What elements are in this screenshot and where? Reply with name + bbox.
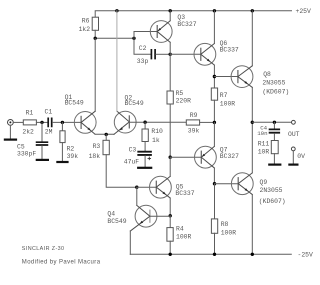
svg-text:1k2: 1k2 — [79, 26, 91, 33]
resistor R7 — [211, 88, 235, 107]
terminal: 0V — [291, 147, 305, 160]
junction: Q4 collector / Q5 base — [135, 186, 138, 189]
svg-text:R9: R9 — [190, 112, 198, 119]
svg-text:18k: 18k — [89, 153, 101, 160]
wire: Q1/Q2 emitter junction — [95, 133, 114, 135]
svg-text:2N3055: 2N3055 — [262, 80, 285, 87]
junction: R5/Q5 collector/Q7 base node — [169, 156, 172, 159]
svg-text:BC327: BC327 — [220, 153, 239, 160]
transistor Q2 (BC549 NPN, mirrored) — [114, 94, 144, 134]
wire: Q6 emitter down to R7 — [213, 65, 215, 88]
wire: Q2 base to feedback node — [129, 121, 186, 123]
capacitor C5 — [17, 122, 47, 158]
junction on -25V rail at R8 — [213, 253, 216, 256]
svg-text:BC337: BC337 — [220, 47, 239, 54]
resistor R1 — [22, 109, 36, 135]
ground: R11 — [269, 164, 280, 166]
node: +25V label — [296, 8, 312, 15]
junction on +25V rail at Q8 collector — [251, 9, 254, 12]
capacitor C3 (electrolytic) — [124, 142, 151, 167]
svg-text:100R: 100R — [176, 233, 192, 240]
wire: Q9 collector up to output node — [251, 122, 253, 173]
wire: Q4 emitter down to -25V rail — [129, 231, 131, 254]
transistor Q1 (BC549 NPN) — [65, 94, 96, 134]
svg-text:BC337: BC337 — [175, 190, 194, 197]
junction on +25V rail at Q2 collector line — [115, 9, 118, 12]
svg-text:100R: 100R — [221, 230, 237, 237]
junction on -25V rail at Q9 emitter — [251, 253, 254, 256]
resistor R11 — [258, 134, 278, 164]
resistor R6 — [79, 17, 99, 33]
transistor Q9 (2N3055 NPN) — [231, 173, 285, 205]
svg-text:220R: 220R — [176, 98, 192, 105]
svg-text:2k2: 2k2 — [22, 128, 34, 135]
svg-text:100R: 100R — [220, 100, 236, 107]
svg-text:R4: R4 — [176, 226, 184, 233]
svg-text:R7: R7 — [220, 92, 228, 99]
junction dot at node A / Q3 base branch — [132, 37, 135, 40]
wire: Q3 collector down to C2 node — [169, 42, 171, 54]
wire: R3 bottom to Q5 base node — [106, 155, 137, 188]
junction on +25V rail at Q6 collector — [213, 9, 216, 12]
wire: R6 bottom to node A — [94, 30, 96, 38]
svg-text:OUT: OUT — [288, 131, 300, 138]
svg-text:Q9: Q9 — [260, 179, 268, 186]
ground: C3 — [138, 167, 151, 169]
wire: Q4 base to Q5 emitter node — [150, 215, 170, 217]
svg-text:39k: 39k — [188, 128, 200, 135]
wire: node to Q5 base — [137, 186, 157, 188]
transistor Q3 (BC327 PNP) — [150, 14, 196, 43]
svg-text:10R: 10R — [258, 148, 270, 155]
subtitle: Modified by Pavel Macura — [22, 260, 101, 266]
svg-text:SINCLAIR Z-30: SINCLAIR Z-30 — [22, 246, 65, 252]
node: -25V label — [298, 251, 314, 258]
resistor R10 — [142, 122, 163, 144]
input connector J1 — [7, 120, 13, 126]
svg-text:R6: R6 — [82, 17, 90, 24]
resistor R4 — [167, 216, 192, 255]
svg-text:C3: C3 — [129, 147, 137, 154]
wire: Q9 emitter down to -25V rail — [251, 195, 253, 255]
wire: node to Q6 base — [170, 53, 201, 55]
svg-text:10n: 10n — [257, 130, 267, 137]
wire: Q2 collector line to +25V rail (light) — [116, 11, 118, 111]
wire: Q3 emitter up to +25V rail — [169, 11, 171, 21]
svg-text:R10: R10 — [151, 128, 163, 135]
svg-text:2M: 2M — [45, 128, 53, 135]
wire: C1 to Q1 base — [53, 121, 82, 123]
junction dot at R6 bottom — [94, 37, 97, 40]
junction: Q7 collector / R8 / Q9 base — [213, 182, 216, 185]
wire: -25V bottom rail — [130, 253, 291, 255]
terminal: OUT — [288, 120, 300, 138]
resistor R3 — [89, 134, 110, 160]
wire: node to Q7 base — [170, 156, 201, 158]
transistor Q4 (BC549 NPN, mirrored) — [107, 205, 157, 231]
resistor R8 — [211, 184, 236, 255]
junction: C4 tap — [273, 121, 276, 124]
svg-text:BC549: BC549 — [107, 218, 126, 225]
svg-text:BC549: BC549 — [65, 100, 84, 107]
svg-text:33p: 33p — [137, 58, 149, 65]
ground: input connector — [5, 139, 16, 141]
title: SINCLAIR Z-30 — [22, 246, 65, 252]
wire: 0V terminal to ground — [292, 151, 294, 164]
wire: Q7 collector down to Q9 base node — [213, 168, 215, 184]
svg-text:47uF: 47uF — [124, 159, 140, 166]
svg-text:330pF: 330pF — [17, 150, 36, 157]
wire: R9 right to Q7 emitter column — [200, 121, 215, 123]
junction on -25V rail at R4 — [169, 253, 172, 256]
wire: node A up to Q3 base — [134, 32, 157, 39]
svg-text:Q4: Q4 — [107, 211, 115, 218]
wire: node A down to C2 left — [134, 38, 151, 54]
wire: C2 right to Q3 emitter node — [156, 53, 170, 55]
wire: Q6 collector up to +25V rail — [213, 11, 215, 44]
svg-text:R5: R5 — [176, 90, 184, 97]
junction: C5 tap — [40, 121, 43, 124]
transistor Q6 (BC337 NPN) — [194, 40, 239, 65]
svg-text:39k: 39k — [67, 153, 79, 160]
svg-text:R3: R3 — [93, 143, 101, 150]
resistor R2 — [60, 122, 78, 161]
wire: Q8 collector up to +25V rail — [251, 11, 253, 66]
junction: Q8 base tap on Q6 emitter line — [213, 75, 216, 78]
junction on +25V rail at Q3 emitter — [169, 9, 172, 12]
capacitor C2 — [137, 45, 155, 65]
wire: R5 bottom to Q7 base node — [169, 104, 171, 157]
svg-text:(KD607): (KD607) — [259, 198, 286, 205]
capacitor C4 — [257, 122, 279, 137]
svg-text:R2: R2 — [67, 146, 75, 153]
wire: tap to Q8 base — [214, 76, 238, 78]
svg-text:C2: C2 — [139, 45, 147, 52]
svg-text:0V: 0V — [297, 153, 305, 160]
wire: R7 bottom to R9 node — [213, 100, 215, 122]
node A: R6/Q1 collector/Q3 base junction wire — [95, 37, 134, 39]
junction: emitters / R3 top — [105, 133, 108, 136]
transistor Q8 (2N3055 NPN) — [231, 66, 289, 96]
transistor Q7 (BC327 PNP) — [195, 146, 240, 168]
junction: R10 top / feedback node — [143, 121, 146, 124]
svg-text:+25V: +25V — [296, 8, 312, 15]
svg-text:1k: 1k — [152, 137, 160, 144]
svg-text:C1: C1 — [45, 109, 53, 116]
wire: node to Q9 base — [215, 183, 239, 185]
wire: Q7 emitter up to R9 node — [213, 122, 215, 146]
ground: 0V — [289, 164, 297, 166]
svg-text:Q8: Q8 — [263, 71, 271, 78]
junction: R7/R9/Q7 emitter node — [213, 121, 216, 124]
wire: R1 to C1 — [36, 121, 47, 123]
wire: Q8 emitter down to output node — [251, 87, 253, 122]
svg-text:R1: R1 — [26, 109, 34, 116]
svg-text:-25V: -25V — [298, 251, 314, 258]
ground: C5 — [37, 159, 48, 161]
svg-text:R11: R11 — [258, 140, 270, 147]
transistor Q5 (BC337 NPN) — [150, 176, 195, 198]
resistor R5 — [167, 90, 191, 105]
svg-text:Q3: Q3 — [177, 14, 185, 21]
junction: Q5 emitter / Q4 base / R4 — [169, 214, 172, 217]
svg-text:BC327: BC327 — [177, 21, 196, 28]
wire: output node to OUT terminal — [252, 121, 291, 123]
svg-text:(KD607): (KD607) — [262, 88, 289, 95]
wire: Q5 collector up to Q7 base node — [169, 157, 171, 176]
wire: Q1 collector up to node A — [94, 38, 96, 111]
wire: C2 node down to R5 top — [169, 54, 171, 91]
svg-text:2N3055: 2N3055 — [260, 187, 283, 194]
capacitor C1 — [45, 109, 53, 136]
junction: Q3 collector / C2 / Q6 base node — [169, 53, 172, 56]
junction: R2 tap — [61, 121, 64, 124]
wire: Q5 emitter down to R4 node — [169, 198, 171, 216]
svg-text:Modified by Pavel Macura: Modified by Pavel Macura — [22, 260, 101, 266]
wire: connector to R1 — [13, 121, 23, 123]
svg-text:R8: R8 — [221, 221, 229, 228]
wire: Q4 collector up to Q5 base node — [136, 187, 138, 205]
wire: +25V top rail — [95, 11, 291, 17]
junction: output node — [251, 121, 254, 124]
resistor R9 — [186, 112, 199, 135]
svg-text:BC549: BC549 — [125, 100, 144, 107]
ground: R2 — [57, 161, 67, 163]
wire: connector to ground — [9, 125, 11, 139]
